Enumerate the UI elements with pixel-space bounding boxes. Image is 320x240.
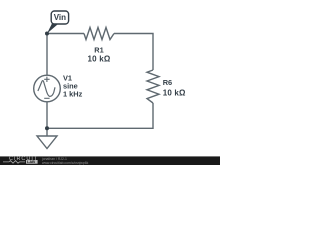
svg-text:R1: R1 [94, 46, 103, 55]
svg-text:R6: R6 [163, 78, 172, 87]
svg-text:LAB: LAB [27, 159, 35, 164]
voltage source V1 body [34, 75, 61, 102]
watermark bar [0, 157, 220, 166]
CircuitLab logo LAB [26, 160, 38, 164]
node B junction dot [45, 126, 49, 130]
V1 plus sign [44, 77, 49, 82]
svg-text:10 kΩ: 10 kΩ [88, 55, 111, 64]
svg-text:www.circuitlab.com/c/csnjwp6k: www.circuitlab.com/c/csnjwp6k [42, 161, 89, 165]
wire: R6 bottom lead to bottom-right corner and left to node B [47, 103, 153, 128]
resistor R6 [147, 70, 159, 103]
CircuitLab logo zigzag [3, 161, 25, 164]
wire: R1 right lead to top-right corner and down to R6 [114, 34, 153, 71]
Vin flag box [51, 11, 68, 24]
V1 sine symbol [38, 81, 55, 97]
svg-text:10 kΩ: 10 kΩ [163, 89, 186, 98]
svg-text:Vin: Vin [54, 13, 66, 22]
wire: node A down to V1 top terminal [46, 34, 48, 76]
node A junction dot [45, 32, 49, 36]
Vin flag tail [47, 23, 58, 34]
wire: V1 bottom terminal down to node B [46, 102, 48, 129]
ground [46, 128, 48, 136]
resistor R1 [84, 28, 114, 40]
svg-text:1 kHz: 1 kHz [63, 90, 83, 99]
wire top: node A to R1 left lead [47, 33, 84, 35]
V1 minus sign [44, 97, 49, 99]
